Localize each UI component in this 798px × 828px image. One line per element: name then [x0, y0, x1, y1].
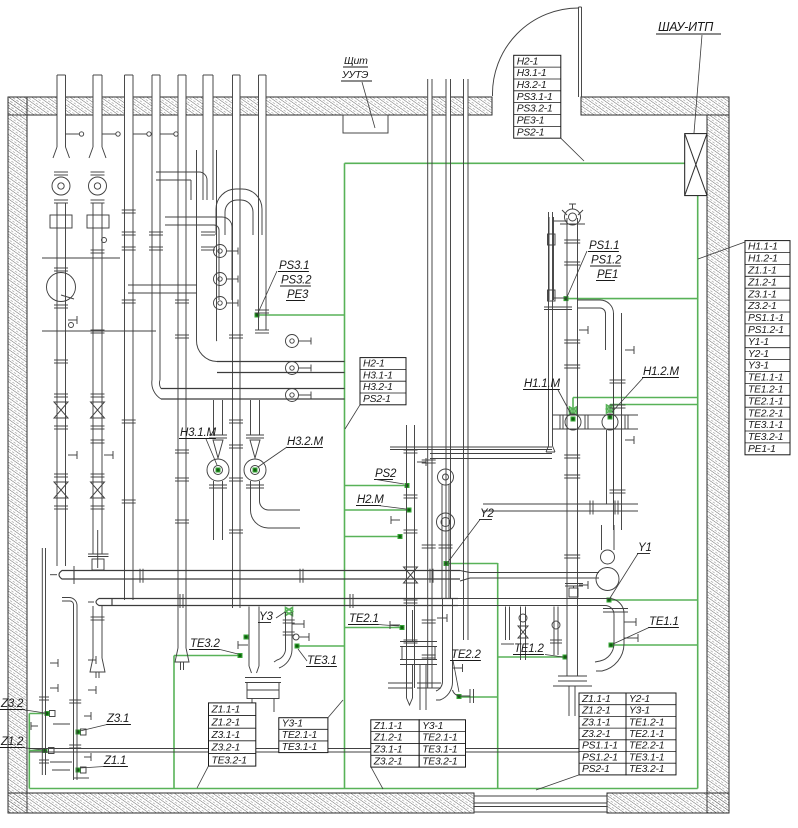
pipe right riser main	[566, 218, 568, 676]
wire green vertical right v2	[697, 196, 699, 789]
pump P2 circle	[89, 177, 107, 195]
Z bottom ticks	[52, 769, 70, 771]
svg-text:PS3.2-1: PS3.2-1	[517, 104, 553, 115]
svg-text:Y3-1: Y3-1	[422, 721, 443, 732]
pump H3 outlets down	[213, 481, 215, 540]
pipe riser 5	[178, 96, 187, 116]
wire green Z1.2 branch	[29, 750, 45, 752]
svg-text:Z3.2-1: Z3.2-1	[373, 756, 403, 767]
svg-text:Z1.1: Z1.1	[103, 755, 126, 767]
wire green TE3.2 branch	[174, 655, 240, 657]
svg-text:Z3.2-1: Z3.2-1	[211, 743, 241, 754]
blind flange on run1 stub	[565, 583, 583, 585]
wire green TE2.1 branch	[345, 627, 403, 629]
pipe pump drop 2	[92, 203, 94, 554]
pipe horizontal pair y453	[430, 453, 552, 455]
svg-text:Y2: Y2	[480, 508, 494, 520]
upper-left horizontal tie 2	[128, 284, 197, 286]
valve actuator boxes Z	[50, 711, 56, 717]
TE2 stem handles	[390, 624, 400, 626]
wire green Y1 branch	[609, 599, 698, 601]
svg-text:PS1.2: PS1.2	[591, 255, 622, 267]
TE3 sensor stubs	[238, 644, 248, 646]
svg-text:Y3: Y3	[259, 611, 273, 623]
svg-text:УУТЭ: УУТЭ	[341, 69, 368, 81]
svg-text:ТЕ1.2-1: ТЕ1.2-1	[629, 717, 664, 728]
svg-text:Щит: Щит	[344, 55, 368, 67]
svg-text:PS1.2-1: PS1.2-1	[582, 752, 618, 763]
wire green PS1 branch	[566, 298, 698, 300]
svg-text:Y1: Y1	[638, 542, 652, 554]
wire green TE3.1 branch	[297, 645, 345, 647]
pipe Y3 right branch	[285, 612, 287, 650]
svg-text:PE1: PE1	[597, 269, 618, 281]
pipe center riser C lower flanges	[422, 459, 436, 461]
H1 lower manifold	[483, 503, 638, 505]
svg-text:Z1.2-1: Z1.2-1	[747, 277, 777, 288]
wire green TE1.1 branch	[611, 644, 698, 646]
P2 termination box	[88, 553, 109, 555]
run flanges	[139, 569, 141, 583]
pipe right thin	[548, 212, 550, 446]
table top cable list	[514, 55, 561, 138]
pipe H2 assembly center	[406, 425, 408, 688]
svg-text:Y1-1: Y1-1	[748, 337, 769, 348]
table bottom T3	[579, 693, 626, 775]
svg-text:PS1.1: PS1.1	[589, 240, 619, 252]
svg-text:ТЕ3.1-1: ТЕ3.1-1	[282, 742, 317, 753]
left small fittings	[69, 323, 74, 328]
wire green bottom horizontal	[29, 788, 697, 790]
Y3 branch handwheel	[293, 634, 299, 640]
svg-text:Z3.1: Z3.1	[106, 713, 129, 725]
pump group flanges	[54, 171, 68, 173]
table mid H2 list	[360, 358, 406, 405]
svg-text:Y2-1: Y2-1	[629, 694, 650, 705]
wire green H1.1 motor branch	[573, 397, 698, 399]
pipe pump drop 1	[56, 203, 58, 566]
pump H1.1	[565, 414, 581, 430]
pipe riser 2	[93, 96, 103, 116]
svg-text:ТЕ3.1-1: ТЕ3.1-1	[629, 752, 664, 763]
pipe Y2 valve column	[441, 484, 443, 598]
TE2 lower pipes	[406, 665, 408, 699]
pipe TE2 columns	[406, 610, 408, 641]
pipe L-elbow below run1	[62, 598, 77, 641]
svg-text:Н2-1: Н2-1	[517, 56, 539, 67]
riser8 PS3 sensor area	[255, 309, 269, 311]
pipe Y1 drop lower curve	[595, 644, 624, 671]
svg-text:ТЕ1.2: ТЕ1.2	[514, 643, 544, 655]
svg-text:ТЕ3.2: ТЕ3.2	[190, 638, 220, 650]
svg-text:ТЕ1.1: ТЕ1.1	[649, 616, 679, 628]
pipe right elbow upper	[578, 300, 614, 460]
svg-text:РЕ3-1: РЕ3-1	[517, 116, 545, 127]
svg-text:Z3.1-1: Z3.1-1	[747, 289, 777, 300]
svg-text:Н1.1.М: Н1.1.М	[524, 378, 560, 390]
svg-text:PS2: PS2	[375, 468, 397, 480]
wall left	[8, 97, 27, 813]
svg-text:Y3-1: Y3-1	[629, 706, 650, 717]
heavy run U2	[161, 388, 345, 390]
svg-text:ТЕ2.2: ТЕ2.2	[451, 649, 481, 661]
long thin bottom pipe	[29, 748, 607, 750]
svg-text:Z1.2: Z1.2	[0, 736, 24, 748]
Y3 base flange	[245, 677, 281, 679]
svg-text:Z1.2-1: Z1.2-1	[581, 706, 611, 717]
run 2 elbow down to TE1	[605, 599, 624, 645]
wall top-right band	[581, 97, 729, 115]
wire green PS2 branch	[345, 485, 407, 487]
svg-text:ТЕ2.1-1: ТЕ2.1-1	[422, 733, 457, 744]
riser stem handles	[66, 133, 80, 135]
wire green vertical center v1	[344, 163, 346, 788]
svg-text:Н2.М: Н2.М	[357, 494, 384, 506]
door swing arc	[492, 8, 578, 96]
svg-text:Z3.1-1: Z3.1-1	[211, 730, 241, 741]
svg-text:Y3-1: Y3-1	[748, 361, 769, 372]
svg-text:Н3.1-1: Н3.1-1	[363, 370, 393, 381]
svg-text:ТЕ3.2-1: ТЕ3.2-1	[629, 764, 664, 775]
heavy run 1	[74, 570, 460, 572]
wire green H2.M branch	[345, 509, 409, 511]
svg-text:Z1.1-1: Z1.1-1	[581, 694, 611, 705]
svg-text:ТЕ3.2-1: ТЕ3.2-1	[212, 755, 247, 766]
wall right	[707, 115, 729, 813]
svg-text:Н3.1.М: Н3.1.М	[180, 427, 216, 439]
svg-text:PS1.1-1: PS1.1-1	[748, 313, 784, 324]
svg-text:ШАУ-ИТП: ШАУ-ИТП	[658, 20, 714, 34]
riser7 lower flanges	[229, 419, 243, 421]
svg-text:PS3.1-1: PS3.1-1	[517, 92, 553, 103]
pipe Y3 column	[248, 607, 250, 667]
svg-text:ТЕ3.1-1: ТЕ3.1-1	[748, 420, 783, 431]
table right cable list	[745, 241, 790, 455]
nozzle circles column 2	[286, 335, 299, 348]
pipe center base flange C	[388, 682, 412, 684]
pipe thin riser A	[446, 96, 452, 116]
wire green Z3.1 dot	[76, 730, 81, 735]
pump H3.2	[250, 440, 260, 458]
svg-text:ТЕ2.1: ТЕ2.1	[349, 613, 379, 625]
wire green TE2.2 branch	[459, 696, 498, 698]
svg-text:РЕ1-1: РЕ1-1	[748, 444, 776, 455]
svg-text:Z1.1-1: Z1.1-1	[373, 721, 403, 732]
pipe riser 1	[57, 96, 67, 116]
wire green TE1.2 branch	[498, 656, 566, 658]
svg-text:ТЕ1.2-1: ТЕ1.2-1	[748, 385, 783, 396]
svg-text:PS1.2-1: PS1.2-1	[748, 325, 784, 336]
bottom-left column stems	[50, 662, 58, 664]
heavy run U1	[217, 361, 345, 363]
pipe inverted U	[216, 189, 262, 235]
svg-text:PS2-1: PS2-1	[517, 127, 545, 138]
svg-text:Y3-1: Y3-1	[282, 719, 303, 730]
svg-text:ТЕ3.1-1: ТЕ3.1-1	[422, 744, 457, 755]
pipe riser 3	[124, 96, 134, 116]
left column flanges and valves	[91, 249, 105, 251]
pipe center riser C	[427, 96, 432, 116]
wall bottom-right band	[607, 793, 729, 813]
svg-text:ТЕ3.1: ТЕ3.1	[307, 655, 337, 667]
svg-text:PS2-1: PS2-1	[363, 394, 391, 405]
left drops to floor	[50, 761, 72, 763]
svg-text:ТЕ3.2-1: ТЕ3.2-1	[748, 432, 783, 443]
svg-text:ТЕ2.1-1: ТЕ2.1-1	[282, 730, 317, 741]
riser5 flanges	[175, 299, 189, 301]
U2 left elbow	[152, 380, 161, 399]
svg-text:PS3.1: PS3.1	[279, 260, 309, 272]
wire green H3.1 motor dot	[216, 468, 221, 473]
TE2 flanged body	[400, 641, 437, 643]
left horizontal tie	[42, 330, 156, 332]
pipe Z column thin right	[73, 640, 75, 780]
doorway sill lines bottom opening	[474, 796, 607, 812]
svg-text:Z1.2-1: Z1.2-1	[211, 717, 241, 728]
svg-text:Z1.1-1: Z1.1-1	[211, 705, 241, 716]
pipe TE2 right riser drop	[442, 598, 444, 682]
drain column A	[505, 607, 507, 641]
cabinet SHAU-ITP box	[685, 134, 707, 196]
svg-text:PS2-1: PS2-1	[582, 764, 610, 775]
svg-text:ТЕ2.2-1: ТЕ2.2-1	[629, 741, 664, 752]
pipe riser 4	[152, 96, 161, 116]
table bottom T2	[371, 720, 419, 768]
pump H1.2	[602, 414, 618, 430]
svg-text:РЕ3: РЕ3	[287, 289, 309, 301]
riser3 flanges	[122, 209, 136, 211]
svg-text:Z3.2-1: Z3.2-1	[581, 729, 611, 740]
pipe elbow gamma1	[156, 172, 207, 200]
svg-text:ТЕ2.1-1: ТЕ2.1-1	[748, 396, 783, 407]
wire green aux branch	[345, 536, 400, 538]
right riser top valve head	[565, 209, 581, 225]
heavy run 2	[112, 598, 458, 600]
svg-text:Z3.2: Z3.2	[0, 698, 24, 710]
riser flange band upper	[122, 231, 136, 233]
drain column B with valve	[520, 607, 522, 661]
left gauge column	[548, 217, 550, 300]
strainer tank circle	[47, 273, 76, 302]
pipe gamma2	[165, 217, 232, 300]
pipe riser 6	[203, 96, 214, 116]
table bottom T1 col2	[279, 718, 328, 753]
riser5 drain cone	[175, 648, 189, 670]
wall top-left band	[8, 97, 492, 115]
pipe P2 below run2	[92, 606, 94, 658]
wire green Z3.2 branch	[29, 713, 47, 715]
drain column C with valve	[553, 607, 555, 656]
pipe Z column thin left	[41, 548, 43, 775]
svg-text:Н1.2-1: Н1.2-1	[748, 254, 778, 265]
svg-text:Н3.2-1: Н3.2-1	[517, 80, 547, 91]
pump base boxes	[50, 215, 72, 228]
svg-text:Н3.2-1: Н3.2-1	[363, 382, 393, 393]
run 2 thin extension to Y1 valve	[458, 598, 609, 600]
pump H3.1	[213, 440, 223, 458]
svg-text:Z1.2-1: Z1.2-1	[373, 733, 403, 744]
pump P1 circle	[52, 177, 70, 195]
wire green main horizontal top	[345, 162, 685, 164]
pipe big left leg	[196, 150, 198, 340]
wire green Z1.1 dot	[76, 768, 81, 773]
wire green vertical left v3	[28, 714, 30, 789]
nozzle circles on big pipe	[214, 245, 227, 258]
run 1 reducer to Y1	[460, 571, 599, 582]
pipe center horizontal y448	[390, 446, 552, 448]
TE1 sensor stubs	[624, 621, 636, 623]
svg-text:Н3.1-1: Н3.1-1	[517, 68, 547, 79]
svg-text:Z3.1-1: Z3.1-1	[373, 744, 403, 755]
svg-text:Н1.2.М: Н1.2.М	[643, 366, 679, 378]
wall bottom-left band	[8, 793, 474, 813]
pipe right secondary vertical	[613, 313, 615, 530]
svg-text:ТЕ1.1-1: ТЕ1.1-1	[748, 373, 783, 384]
svg-text:Z1.1-1: Z1.1-1	[747, 266, 777, 277]
pipe H1.2 drop	[606, 430, 608, 504]
pipe big elbow to run U1	[196, 340, 217, 362]
pipe thin riser B	[463, 96, 469, 116]
wire green PS3 branch	[257, 314, 345, 316]
svg-text:PS1.1-1: PS1.1-1	[582, 741, 618, 752]
wire green Y2 branch	[446, 563, 498, 565]
svg-text:ТЕ3.2-1: ТЕ3.2-1	[422, 756, 457, 767]
H1 pump manifold	[552, 414, 638, 416]
svg-text:Z3.2-1: Z3.2-1	[747, 301, 777, 312]
svg-text:Y2-1: Y2-1	[748, 349, 769, 360]
pipe Y1 assembly	[601, 525, 603, 550]
door leaf	[579, 7, 582, 97]
wire green vertical v4 TE3 zone	[173, 656, 175, 789]
pipe riser 8	[258, 96, 267, 116]
svg-text:Н2-1: Н2-1	[363, 359, 385, 370]
pump H3 group funnels	[53, 147, 70, 158]
svg-text:ТЕ2.1-1: ТЕ2.1-1	[629, 729, 664, 740]
pump Y1 circles	[601, 550, 615, 564]
svg-text:ТЕ2.2-1: ТЕ2.2-1	[748, 408, 783, 419]
table bottom T1 col1	[209, 703, 256, 766]
wire green Y3 valve	[286, 608, 293, 616]
svg-text:Z3.1-1: Z3.1-1	[581, 717, 611, 728]
wire green H3.2 motor dot	[253, 468, 258, 473]
svg-text:PS3.2: PS3.2	[281, 275, 312, 287]
svg-text:Н1.1-1: Н1.1-1	[748, 242, 778, 253]
svg-text:Н3.2.М: Н3.2.М	[287, 436, 323, 448]
wire green H1.2 motor branch	[610, 404, 698, 406]
wire green vertical v5 TE2 zone	[497, 563, 499, 789]
right riser base flange	[558, 675, 587, 677]
pipe riser 7	[232, 96, 241, 116]
TE2.2 green valve elbow	[453, 690, 471, 696]
